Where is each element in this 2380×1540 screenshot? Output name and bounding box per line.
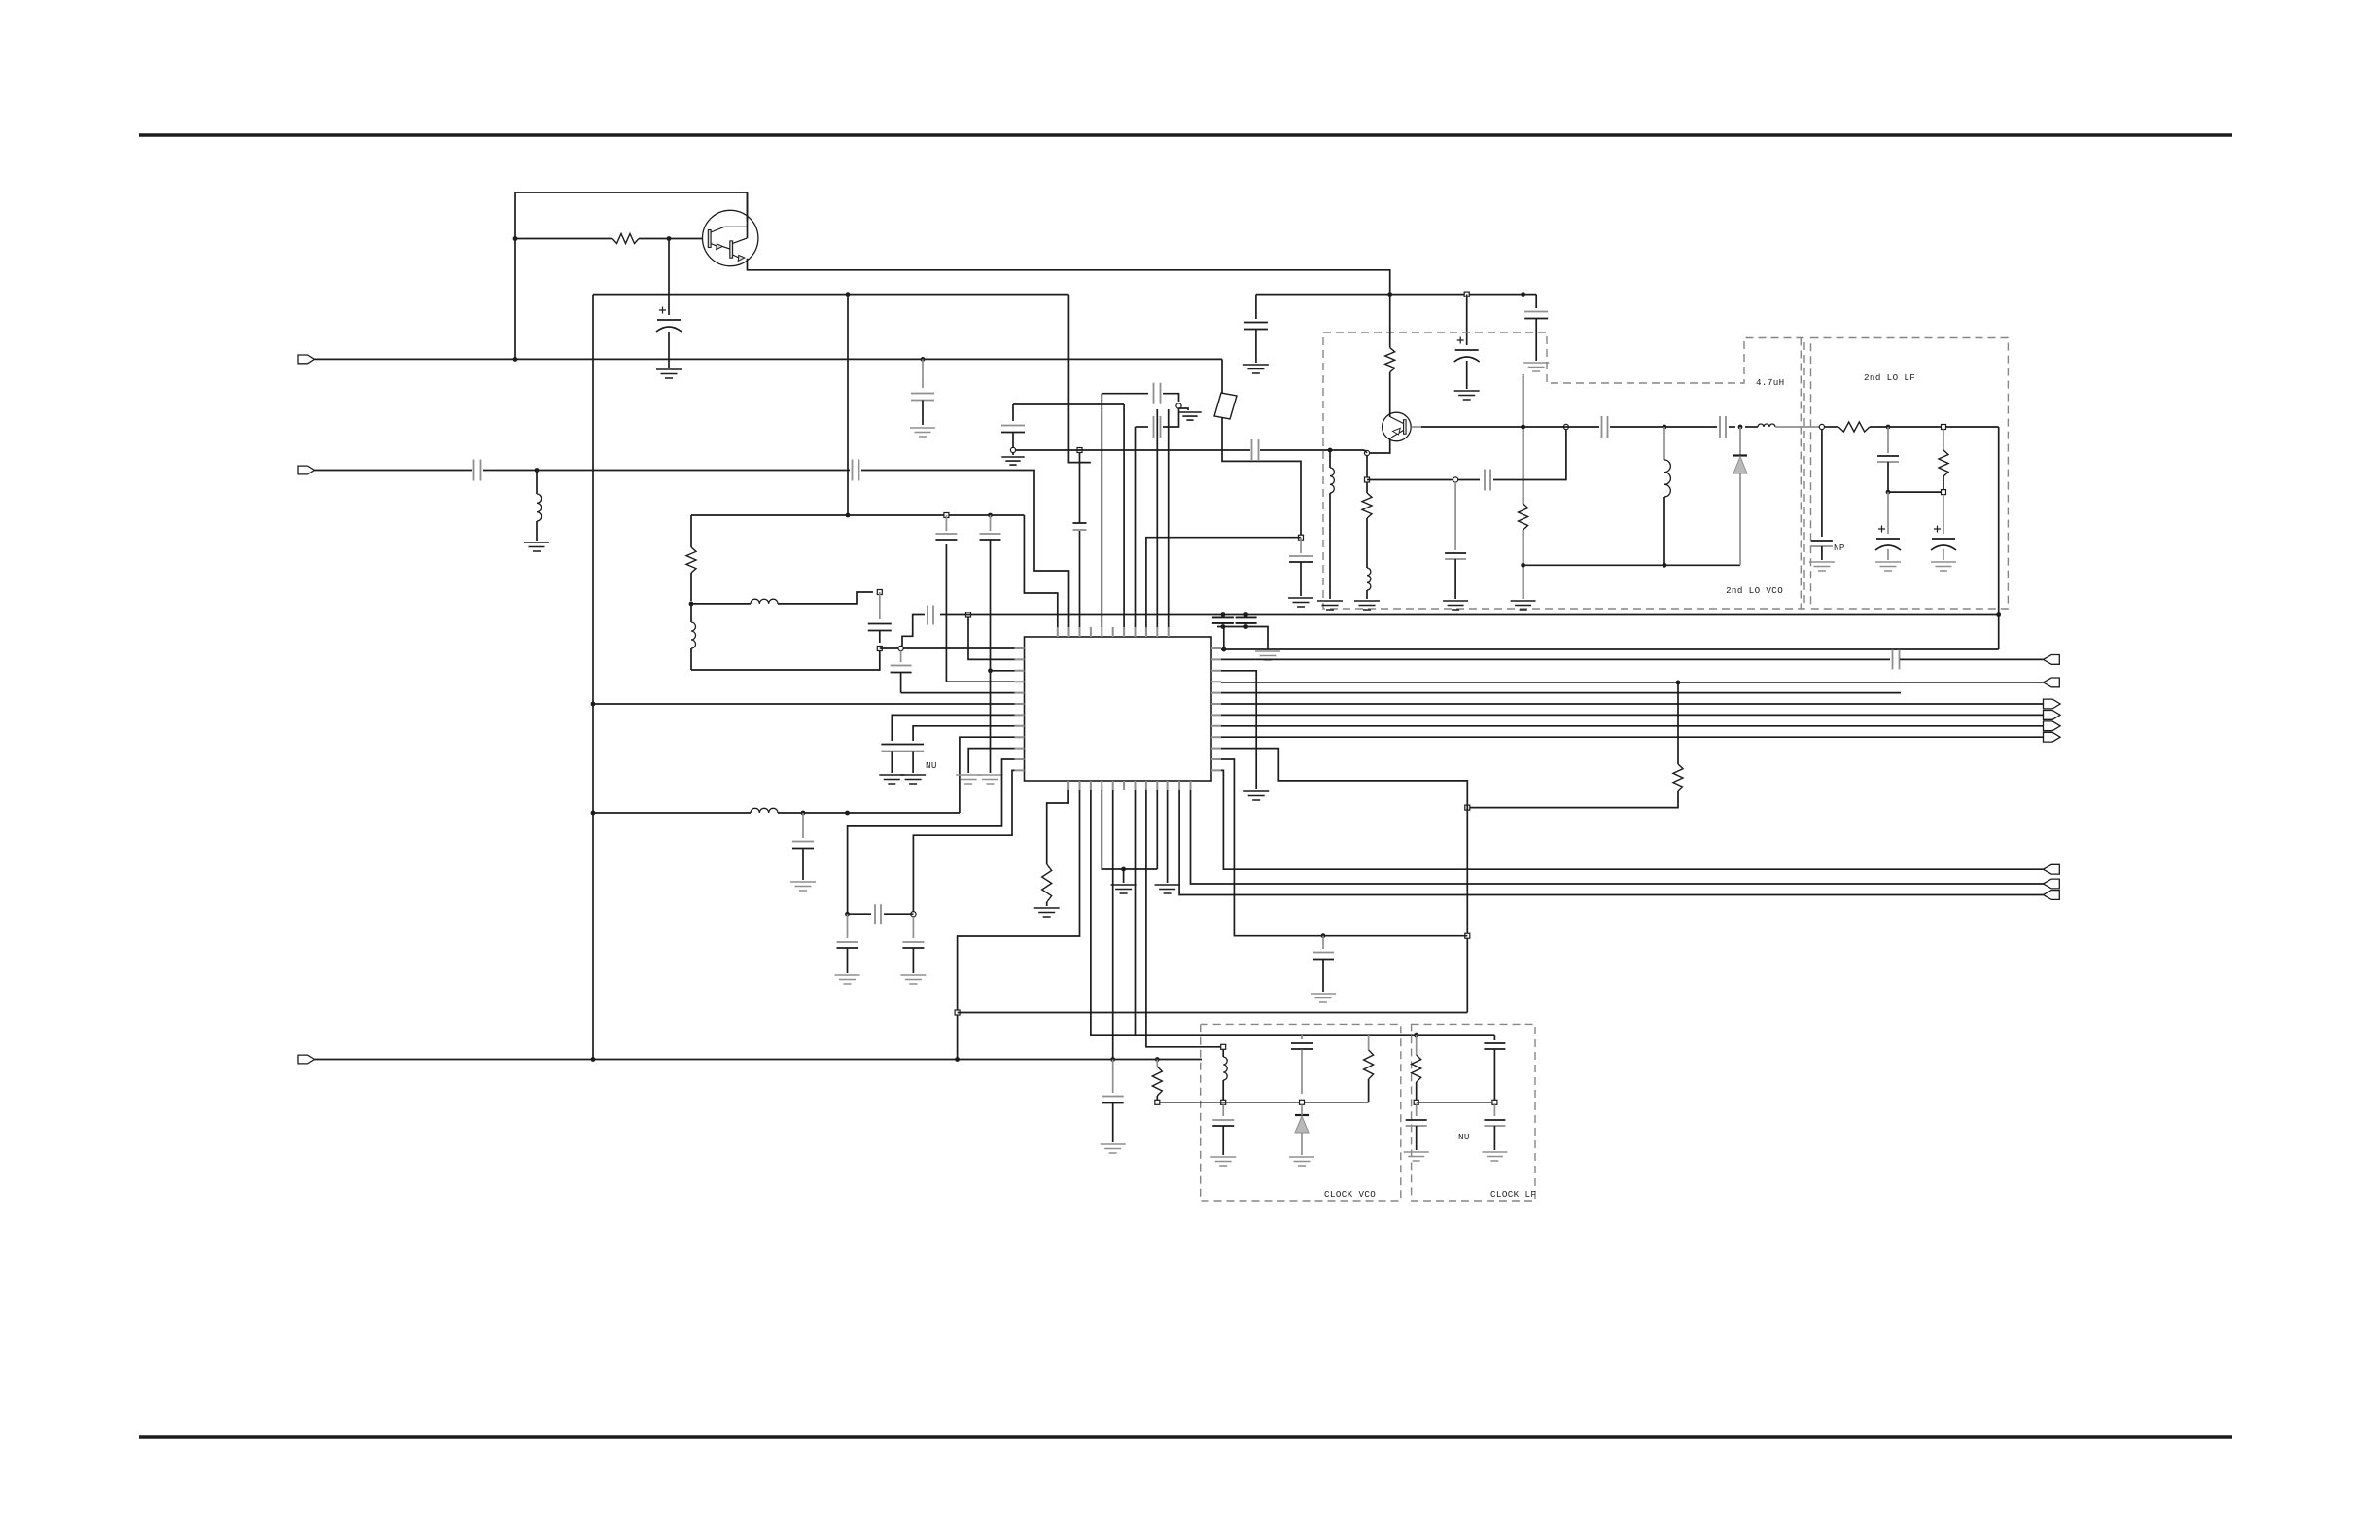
- resistor R3 below B1: [1042, 864, 1052, 902]
- wire pin L2 net: [968, 617, 1015, 659]
- wire pin R8 long: [1221, 725, 2044, 727]
- ground below L1: [524, 542, 549, 551]
- svg-text:NU: NU: [1458, 1132, 1470, 1142]
- wire pin T6 to 416 run: [1123, 404, 1125, 627]
- inductor L9 clock: [1222, 1049, 1224, 1057]
- wire pin T5 to cap run upper: [1101, 394, 1102, 627]
- capacitor C35 LF: [1887, 427, 1889, 453]
- wire pin R3 net: [1221, 671, 1256, 789]
- node tank rail x872: [846, 513, 851, 518]
- node clock y1133.8 square a: [1221, 1100, 1226, 1104]
- node long rail at cap A: [1221, 612, 1226, 617]
- wire LF lower tie: [1888, 491, 1943, 493]
- node emitter square: [1365, 477, 1370, 482]
- wire input2 staircase to IC pin T2: [861, 471, 1069, 628]
- capacitor C40 clock LF series: [1493, 1035, 1495, 1040]
- capacitor C20 below x871.5: [847, 914, 849, 938]
- wire long vertical x610: [592, 295, 594, 1060]
- capacitor C11 on x1042: [1012, 404, 1014, 421]
- node L1-pin square: [877, 647, 882, 651]
- ground below C38: [1210, 1157, 1236, 1166]
- wire clock y1133.8 run: [1157, 1102, 1368, 1103]
- node y963 cap tap: [1321, 933, 1326, 938]
- ground below C18: [790, 882, 816, 891]
- wire resistor to transistor: [639, 238, 703, 240]
- wire input1 rail: [315, 358, 1223, 360]
- ground below C26: [1243, 365, 1269, 373]
- wire input2 segment 2: [483, 470, 850, 472]
- node LF mid: [1886, 425, 1891, 430]
- ground below L10: [956, 775, 981, 784]
- ground below x1018.5: [978, 775, 1003, 784]
- svg-text:CLOCK LF: CLOCK LF: [1490, 1189, 1536, 1200]
- resistor R10 clock tune: [1156, 1060, 1158, 1067]
- output arrow R8: [2044, 721, 2061, 731]
- node y632.5 end dot: [1996, 612, 2001, 617]
- input port arrow J2: [298, 466, 315, 474]
- resistor R4tap: [1677, 682, 1679, 764]
- wire pin R1 net LF return: [1221, 648, 1999, 650]
- capacitor C38 below clock inductor: [1222, 1104, 1224, 1116]
- node input3 x984.6: [955, 1057, 960, 1062]
- wire VB rail y302 left: [593, 294, 1068, 296]
- wire Q1 emitter to VCO collector run: [748, 259, 1390, 295]
- inductor L8 4.7uH: [1758, 424, 1775, 427]
- bottom border rule: [139, 1435, 2232, 1439]
- wire pin L6 long: [593, 703, 1015, 705]
- node cap-row A bottom: [1221, 624, 1226, 629]
- capacitor C24 below y963: [1322, 936, 1324, 949]
- wire pin L10 net: [968, 749, 1014, 773]
- capacitor C27 electrolytic rail: [1466, 295, 1468, 345]
- resistor R9 LF shunt: [1942, 430, 1944, 451]
- node rail +cap square: [1464, 292, 1469, 297]
- capacitor C29 series base feed: [1252, 447, 1259, 453]
- node varactor rail left: [1521, 563, 1525, 568]
- ground below D2: [1289, 1157, 1314, 1166]
- node R4 resistor tap: [1676, 681, 1681, 685]
- capacitor C16 NU-a: [889, 745, 894, 752]
- IC U1 body: [1025, 637, 1212, 781]
- capacitor C9 inline on T3: [1073, 523, 1086, 531]
- wire emitter chain: [1366, 456, 1368, 478]
- capacitor C8 tank coupling: [879, 592, 881, 619]
- node output at resistor chain: [1521, 425, 1525, 430]
- wire pin R5 net: [1221, 692, 1901, 694]
- node input3 x610: [591, 1057, 596, 1062]
- wire long rail y632.5: [940, 614, 1999, 616]
- wire base from node: [515, 238, 612, 240]
- transistor Q1 darlington: [703, 210, 758, 265]
- wire 439 run right: [1163, 408, 1179, 427]
- node y836 x610: [591, 811, 596, 816]
- wire pin L9 to y836 line: [960, 737, 1015, 813]
- node clock LF square b: [1492, 1100, 1497, 1104]
- capacitor C23 series R2 line: [1893, 656, 1900, 662]
- capacitor C14 on x1018.5: [988, 534, 994, 540]
- wire LF output leg: [1998, 427, 2000, 649]
- node input1 at x530: [513, 357, 518, 362]
- ground below L6: [1354, 601, 1380, 610]
- capacitor C1 electrolytic at Q1 base divider: [668, 239, 670, 316]
- resistor R7 divider: [1522, 374, 1524, 427]
- wire pin B10 net: [1167, 790, 1169, 883]
- ground at cap row: [1255, 651, 1280, 660]
- capacitor C22 below rail: [1110, 1097, 1116, 1103]
- wire chain x1018.5 from tank rail: [988, 513, 993, 518]
- ground below B10: [1155, 885, 1180, 893]
- node LF right square: [1942, 425, 1946, 430]
- wire B6 ground stub: [1123, 869, 1125, 883]
- wire pin T10 vertical: [1168, 409, 1170, 627]
- wire pin R6 long: [1221, 703, 2044, 705]
- ground below C37: [1931, 562, 1956, 571]
- capacitor C13 L1 to L5: [900, 651, 902, 663]
- ground below C28: [1523, 363, 1549, 371]
- wire pin R11 net: [1221, 759, 1467, 936]
- capacitor C42 below clock LF b: [1493, 1104, 1495, 1116]
- wire to pin L5: [901, 692, 1015, 694]
- node coil tap on base line: [1328, 448, 1333, 453]
- wire rail left leg: [1255, 295, 1257, 319]
- capacitor C2 bypass on input1: [922, 359, 924, 388]
- wire y552 run from pin T8 top: [1146, 538, 1301, 637]
- node base junction: [513, 236, 518, 241]
- node long rail at cap B: [1243, 612, 1248, 617]
- wire Q1 collector drop inside circle: [747, 192, 749, 238]
- capacitor C5 bridging rail to tie B: [1243, 617, 1249, 623]
- wire y632.5 left end to L1 net: [902, 615, 925, 647]
- node L6 at x610: [591, 702, 596, 707]
- wire line1 y1041.5: [958, 1012, 1468, 1014]
- wire R1 up tie: [1223, 627, 1225, 650]
- ground below C36: [1875, 562, 1901, 571]
- node clock LF resistor tap: [1414, 1033, 1418, 1038]
- node cap-row B bottom: [1243, 624, 1248, 629]
- svg-text:CLOCK VCO: CLOCK VCO: [1324, 1189, 1376, 1200]
- node clock y1133.8 square b: [1155, 1100, 1160, 1104]
- node long-line L2 square: [966, 612, 971, 617]
- resistor R5 collector: [1389, 295, 1391, 348]
- node varactor top: [1738, 425, 1743, 430]
- capacitor C28 rail right: [1533, 312, 1539, 319]
- varactor D2 clock: [1295, 1114, 1309, 1116]
- capacitor C36 electrolytic LF a: [1887, 492, 1889, 534]
- capacitor C19 series balun: [871, 907, 884, 922]
- node input3 x1144.7: [1110, 1057, 1115, 1062]
- inductor L2 series tank: [751, 599, 778, 604]
- wire VB rail drop to T4: [1068, 295, 1091, 463]
- node LF mid lower: [1886, 490, 1891, 495]
- wire pin L1 net: [880, 647, 1015, 649]
- wire pin R2 long to output: [1221, 658, 1890, 660]
- wire balun tie: [848, 913, 914, 915]
- wire input2 segment 1: [315, 470, 472, 472]
- inductor L7 shunt output: [1663, 427, 1665, 460]
- resistor R1: [612, 234, 639, 244]
- inductor L3 tank left lower: [690, 604, 692, 622]
- ground below C1: [656, 369, 682, 378]
- wire pin B8 net: [1146, 790, 1216, 1047]
- node tank left mid: [689, 602, 694, 607]
- node grounded tie circle: [1176, 403, 1181, 408]
- node tank step square: [877, 590, 882, 595]
- resistor R12 clock LF: [1416, 1035, 1417, 1055]
- wire tank mid with inductor: [691, 603, 751, 605]
- capacitor C26 rail left: [1253, 323, 1259, 330]
- transistor Q2 VCO: [1382, 412, 1412, 441]
- node clock varactor square: [1300, 1100, 1305, 1104]
- wire pin R9 long: [1221, 736, 2044, 738]
- wire cap run upper: [1102, 393, 1148, 395]
- wire feedback to base line: [1493, 430, 1566, 480]
- wire pin B12 net: [1191, 790, 2044, 884]
- IC U1 pin stubs: [1015, 627, 1222, 790]
- wire R2 after cap: [1900, 658, 2044, 660]
- capacitor C34 NP shunt: [1821, 430, 1823, 538]
- node L7 rail: [1662, 563, 1667, 568]
- wire tie to ground: [1179, 408, 1189, 410]
- node B6 gnd tap: [1121, 867, 1126, 872]
- wire R8 to node: [1870, 426, 1999, 428]
- input port arrow J3: [298, 1055, 315, 1064]
- node input2 inductor tap: [535, 468, 540, 472]
- wire pin R4 long: [1221, 682, 2044, 683]
- ground below C42: [1482, 1152, 1507, 1161]
- wire pin B4 net: [1102, 790, 1157, 869]
- capacitor C31 below feedback tap: [1454, 482, 1456, 550]
- wire L8 to LF box: [1775, 426, 1819, 428]
- wire pin L11 net: [848, 759, 1015, 914]
- wire Q2 collector into circle: [1389, 412, 1391, 417]
- wire to ground below R7: [1522, 565, 1524, 599]
- wire tank top rail y530: [691, 514, 1024, 516]
- capacitor C15 on x973.4: [945, 515, 947, 531]
- capacitor C18 below y836: [802, 813, 804, 838]
- wire LF input to resistor: [1825, 426, 1839, 428]
- wire pin B1 net: [1047, 790, 1068, 864]
- inductor L5 shunt base: [1329, 450, 1331, 468]
- wire Q2 emitter down: [1370, 438, 1390, 453]
- wire output line mid2: [1610, 426, 1717, 428]
- wire feedback rectangle top: [515, 192, 748, 359]
- node rail resistor tap: [1521, 292, 1525, 297]
- wire pin L7 net: [892, 715, 1014, 741]
- ground below C3: [1288, 598, 1313, 607]
- varactor D1: [1739, 427, 1741, 455]
- wire y836 line: [593, 812, 960, 814]
- wire base feed into box: [1260, 449, 1365, 451]
- ground below C17: [900, 775, 926, 784]
- dashed box CLOCK VCO: [1201, 1024, 1401, 1201]
- node LF input circle: [1819, 424, 1824, 429]
- resistor R8 LF series: [1838, 422, 1870, 432]
- ground below C24: [1311, 994, 1336, 1002]
- node base line circle: [1563, 424, 1568, 429]
- wire tank rail to pin T1: [1024, 515, 1057, 627]
- ground below C21: [900, 975, 926, 984]
- wire input1 descent to crystal net: [1222, 359, 1301, 535]
- wire pin L12 net: [913, 770, 1014, 914]
- node line1 square x984.6: [955, 1010, 960, 1015]
- ground below x1042: [1012, 453, 1014, 456]
- node clock LF square a: [1414, 1100, 1418, 1104]
- capacitor C6 series input2: [474, 468, 481, 473]
- capacitor C37 electrolytic LF b: [1942, 495, 1944, 535]
- wire pin L4 net: [946, 544, 1014, 682]
- ground below L5: [1317, 601, 1343, 610]
- ground below C22: [1101, 1144, 1126, 1153]
- capacitor C17 NU-b: [910, 745, 916, 752]
- wire pin T9 vertical: [1156, 409, 1158, 627]
- node clock inductor square: [1221, 1044, 1226, 1049]
- node y830 square: [1465, 805, 1470, 810]
- wire pin L8 net: [913, 726, 1014, 741]
- ground below C27: [1454, 391, 1480, 400]
- node T3 top square: [1077, 448, 1082, 453]
- wire pin B2 net: [958, 790, 1080, 1060]
- node R1 x1258.8: [1221, 647, 1226, 652]
- output arrow R4: [2044, 678, 2060, 687]
- node L3 tap: [988, 668, 993, 673]
- node input3 x1190.3: [1155, 1057, 1160, 1062]
- capacitor C32 series output 1: [1602, 424, 1608, 430]
- node output inductor tap: [1662, 425, 1667, 430]
- ground below C20: [835, 975, 860, 984]
- ground at bundle tie: [1178, 412, 1201, 420]
- wire tank bottom return: [691, 651, 880, 670]
- inductor L6 emitter: [1367, 568, 1371, 590]
- node feedback cap tap circle: [1453, 477, 1458, 482]
- wire base feed line y463: [1016, 449, 1251, 451]
- resistor R2 tank left: [690, 515, 692, 547]
- ground below C2: [910, 428, 935, 437]
- svg-text:NP: NP: [1834, 542, 1845, 553]
- capacitor C4 bridging rail to tie A: [1220, 617, 1226, 623]
- wire pin R7 long: [1221, 714, 2044, 716]
- output arrow R7: [2044, 711, 2061, 720]
- input port arrow J1: [298, 355, 315, 364]
- wire varactor rail: [1523, 564, 1740, 566]
- output arrow B11 line: [2044, 891, 2060, 900]
- capacitor C12 lower grey: [1154, 424, 1161, 430]
- wire output to varactor: [1729, 426, 1735, 428]
- node emitter circle: [1364, 450, 1369, 455]
- wire resistor to y830 run: [1467, 791, 1678, 808]
- capacitor C7 series input2: [853, 468, 859, 473]
- resistor R11 clock right: [1368, 1035, 1370, 1050]
- capacitor C39 clock series: [1301, 1035, 1303, 1039]
- node x1042 junction circle: [1010, 447, 1015, 452]
- wire 416 run: [1013, 403, 1124, 405]
- output arrow R12 line: [2044, 864, 2060, 874]
- wire cap run upper right: [1163, 394, 1179, 402]
- dashed box 2nd LO VCO: [1323, 332, 1804, 609]
- node input1 at x949: [921, 357, 926, 362]
- wire clock LF tie: [1417, 1102, 1495, 1103]
- wire Q2 base output line: [1411, 426, 1421, 428]
- top border rule: [139, 133, 2232, 137]
- wire x872 upper segment: [847, 295, 849, 515]
- svg-text:2nd LO LF: 2nd LO LF: [1864, 372, 1915, 383]
- ground below R3: [1034, 908, 1060, 917]
- ground below C41: [1404, 1152, 1429, 1161]
- capacitor C25 series on y632.5: [924, 608, 937, 622]
- output arrow R2: [2044, 655, 2060, 665]
- wire tie caps row to ground stub: [1217, 627, 1268, 650]
- dashed box CLOCK LF: [1412, 1024, 1535, 1201]
- capacitor C3 below y552 node: [1300, 538, 1302, 553]
- wire pin L3 net: [991, 670, 1015, 672]
- ground below C16: [879, 775, 904, 784]
- node R1-C junction: [667, 236, 672, 241]
- wire B8 line into box: [1216, 1046, 1223, 1048]
- node LF right lower square: [1942, 490, 1946, 495]
- wire rail right leg: [1535, 295, 1537, 308]
- ground below C31: [1443, 601, 1468, 610]
- node VB rail at x872: [846, 292, 851, 297]
- wire B5 below rail: [1112, 1060, 1114, 1094]
- wire pin B3 net: [1091, 790, 1495, 1035]
- capacitor C21 below x939.4: [912, 917, 914, 938]
- wire pin B7 net: [1135, 790, 1137, 1035]
- node rail collector: [1387, 292, 1392, 297]
- wire pin B9 vertical: [1156, 790, 1158, 869]
- wire L2 to step: [778, 592, 873, 604]
- capacitor C30 series feedback: [1485, 477, 1490, 483]
- wire pin R10 net: [1221, 749, 1467, 1013]
- wire pin T7 to 439 run: [1135, 427, 1137, 627]
- capacitor C33 series output 2: [1720, 424, 1726, 430]
- wire pin T3 vertical: [1079, 450, 1081, 627]
- node L1 cap tap circle: [898, 646, 903, 650]
- resistor R6 emitter: [1366, 482, 1368, 493]
- node y552 square: [1299, 535, 1304, 540]
- dashed box 2nd LO LF outer: [1800, 338, 1802, 610]
- wire feedback run y493.5: [1367, 479, 1480, 481]
- wire pin B5 net: [1112, 790, 1114, 1060]
- ground below R7: [1511, 601, 1536, 610]
- wire 439 run: [1136, 426, 1149, 428]
- capacitor C10 upper grey: [1154, 391, 1161, 397]
- capacitor C41 below clock LF a: [1416, 1104, 1417, 1116]
- node y836 x871.5: [845, 811, 850, 816]
- ground at B6: [1111, 885, 1137, 893]
- svg-text:4.7uH: 4.7uH: [1756, 377, 1785, 388]
- node y836 x826: [801, 811, 806, 816]
- node balun x871.5: [845, 912, 850, 917]
- output arrow R6: [2044, 699, 2061, 709]
- output arrow B12 line: [2044, 879, 2060, 889]
- svg-text:2nd LO VCO: 2nd LO VCO: [1726, 585, 1783, 596]
- node L4 chain top square: [944, 513, 949, 518]
- svg-text:NU: NU: [926, 760, 937, 771]
- wire VCO supply rail: [1256, 294, 1536, 296]
- wire pin R12 net: [1221, 770, 2044, 869]
- node y963 square: [1465, 933, 1470, 938]
- inductor L4 on y836: [751, 812, 778, 814]
- wire input3 rail: [315, 1059, 1203, 1061]
- ground below C34: [1809, 562, 1835, 571]
- node balun x939.4 circle: [911, 912, 916, 917]
- ground below R3 wire: [1243, 791, 1269, 800]
- output arrow R9: [2044, 732, 2061, 742]
- wire pin B11 net: [1179, 790, 2043, 895]
- crystal Y1 parallelogram: [1214, 393, 1237, 419]
- inductor L1 shunt: [536, 471, 538, 495]
